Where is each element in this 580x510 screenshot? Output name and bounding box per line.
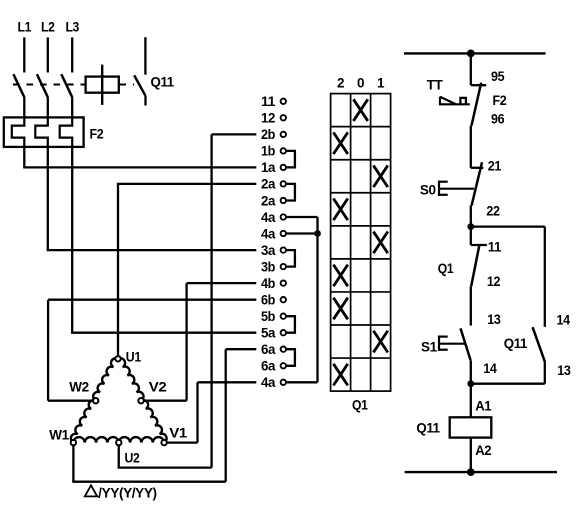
wire W2 to terminal 6b [48, 300, 256, 401]
wire junction to Q11 branch [471, 227, 545, 327]
link 6a-6a [287, 349, 295, 366]
svg-text:96: 96 [491, 111, 505, 126]
motor terminal W1 [71, 440, 76, 445]
label F2 [90, 127, 104, 142]
wire to F2 contact [470, 53, 472, 85]
label Q1 (cam switch) [352, 398, 368, 413]
X mark row 1 col 0 [353, 99, 367, 121]
S0 NC pushbutton contact (21-22) [471, 162, 484, 205]
label 13 (Q11 bottom) [557, 363, 571, 378]
svg-text:L2: L2 [41, 19, 55, 34]
junction at bottom supply [467, 468, 475, 476]
F2 thermal element 3 [60, 117, 72, 146]
label Q11 (aux contact) [504, 336, 528, 351]
X mark row 8 col 1 [373, 331, 387, 353]
Q11 NO aux contact (14-13) [471, 327, 545, 384]
svg-text:A1: A1 [475, 399, 492, 414]
label 14 (Q11 top) [557, 312, 571, 327]
label Q1 (control) [438, 261, 454, 276]
Q1 NO contact (11-12) [471, 227, 487, 326]
wire L3 to terminal 5a [71, 147, 256, 333]
svg-text:TT: TT [427, 77, 444, 92]
F2 NC contact (95-96) [471, 83, 486, 126]
wire V2 to terminal 4b [144, 283, 256, 401]
label 12 [487, 274, 500, 289]
svg-text:4a: 4a [261, 210, 276, 225]
label Q11 (coil) [416, 420, 440, 435]
cam switch terminal 4a (row 18) [261, 375, 286, 390]
svg-text:4a: 4a [261, 375, 276, 390]
svg-text:3a: 3a [261, 243, 276, 258]
label S1 [421, 340, 438, 355]
X mark row 2 col 2 [333, 132, 347, 154]
cam switch terminal 6a (row 16) [261, 342, 286, 357]
S1 NO pushbutton contact (13-14) [461, 328, 471, 383]
X mark row 3 col 1 [373, 165, 387, 187]
wire junction to coil [470, 384, 472, 418]
wire F2 to S0 [470, 126, 472, 168]
S0 pushbutton actuator [439, 181, 474, 196]
supply terminal L1 label [18, 19, 32, 34]
wire S0 to junction [470, 206, 472, 227]
label V2 [149, 380, 167, 395]
svg-text:L1: L1 [18, 19, 32, 34]
svg-text:S1: S1 [421, 340, 438, 355]
X mark row 5 col 1 [373, 232, 387, 254]
svg-text:Q11: Q11 [504, 336, 528, 351]
junction above coil [467, 380, 474, 387]
label winding configuration [85, 485, 157, 500]
F2 thermal element 1 [12, 117, 24, 146]
svg-text:11: 11 [261, 94, 276, 109]
junction 4a [314, 230, 321, 237]
switch pole 1 (L1) of main switch [13, 37, 24, 117]
label 96 [491, 111, 505, 126]
wire V1 to terminal 4a (bottom) [168, 382, 257, 442]
svg-text:11: 11 [488, 239, 502, 254]
label W2 [69, 380, 88, 395]
svg-text:2: 2 [337, 76, 344, 91]
supply terminal L2 label [41, 19, 55, 34]
thermal overload relay F2 box [4, 117, 84, 146]
label V1 [169, 425, 187, 440]
wire W1 to terminal 6a [72, 349, 256, 482]
link 5b-5a [287, 316, 295, 333]
svg-text:22: 22 [486, 203, 499, 218]
svg-text:Q1: Q1 [352, 398, 368, 413]
label 14 (S1 bottom) [483, 361, 497, 376]
svg-text:F2: F2 [493, 93, 507, 108]
cam switch terminal 4b (row 12) [261, 276, 286, 291]
cam switch terminal 4a (row 8) [261, 210, 286, 225]
motor terminal V1 [161, 440, 166, 445]
label 11 [488, 239, 502, 254]
svg-text:1a: 1a [261, 160, 276, 175]
label W1 [49, 427, 69, 442]
supply terminal L3 label [65, 19, 79, 34]
svg-text:14: 14 [557, 312, 571, 327]
label U2 [125, 450, 140, 465]
svg-text:1b: 1b [261, 144, 275, 159]
auxiliary contact Q11 (top) [134, 37, 145, 105]
svg-text:4a: 4a [261, 226, 276, 241]
motor terminal U1 [115, 356, 120, 361]
label Q11 (top contact) [151, 74, 175, 89]
svg-text:U1: U1 [126, 350, 142, 365]
X mark row 4 col 2 [333, 199, 347, 221]
S1 pushbutton actuator [439, 336, 465, 351]
motor terminal W2 [93, 398, 98, 403]
svg-text:21: 21 [488, 159, 502, 174]
svg-text:F2: F2 [90, 127, 104, 142]
cam switch terminal 5a (row 15) [261, 326, 286, 341]
label U1 [126, 350, 142, 365]
link 2a-2a [287, 184, 295, 201]
svg-text:12: 12 [487, 274, 500, 289]
F2 thermal element 2 [35, 117, 48, 146]
X mark row 9 col 2 [333, 364, 347, 386]
thermal trip symbol TT [440, 97, 470, 105]
svg-text:V2: V2 [149, 380, 167, 395]
motor winding U1-W2-W1 (left side coil) [71, 358, 118, 442]
svg-text:Q1: Q1 [438, 261, 454, 276]
switch mechanism box [86, 65, 119, 105]
link 1b-1a [287, 151, 295, 168]
X mark row 6 col 2 [333, 265, 347, 287]
svg-text:12: 12 [261, 111, 275, 126]
svg-text:95: 95 [491, 69, 505, 84]
svg-text:13: 13 [557, 363, 571, 378]
contactor coil Q11 (A1-A2) [450, 417, 492, 437]
cam switch terminal 6b (row 13) [261, 293, 286, 308]
cam switch terminal 3a (row 10) [261, 243, 286, 258]
cam switch terminal 1a (row 5) [261, 160, 286, 175]
wire U2 to terminal 2b [118, 134, 257, 467]
cam switch terminal 4a (row 9) [261, 226, 286, 241]
wire L1 to terminal 1a [23, 147, 256, 168]
wire U1 to terminal 2a [117, 184, 256, 356]
svg-text:0: 0 [357, 76, 364, 91]
label S0 [420, 183, 436, 198]
label TT [427, 77, 444, 92]
svg-text:6b: 6b [261, 293, 275, 308]
svg-text:2b: 2b [261, 127, 275, 142]
cam switch terminal 11 (row 1) [261, 94, 286, 109]
cam switch terminal 2b (row 3) [261, 127, 286, 142]
svg-text:5b: 5b [261, 309, 275, 324]
motor winding W1-U2-V1 (bottom coil) [73, 437, 164, 443]
motor winding U1-V2-V1 (right side coil) [118, 358, 167, 442]
svg-text:2a: 2a [261, 193, 276, 208]
cam switch terminal 2a (row 7) [261, 193, 286, 208]
cam switch position labels 2 0 1 [337, 76, 385, 91]
label 95 [491, 69, 505, 84]
svg-text:W1: W1 [49, 427, 69, 442]
svg-text:W2: W2 [69, 380, 88, 395]
svg-text:A2: A2 [475, 443, 491, 458]
svg-text:14: 14 [483, 361, 497, 376]
link 3a-3b [287, 250, 295, 267]
svg-text:5a: 5a [261, 326, 276, 341]
svg-text:V1: V1 [169, 425, 187, 440]
cam switch terminal 12 (row 2) [261, 111, 286, 126]
cam switch terminal 3b (row 11) [261, 259, 286, 274]
label A1 [475, 399, 492, 414]
junction at top supply [467, 50, 475, 58]
cam switch terminal 5b (row 14) [261, 309, 286, 324]
svg-text:/YY(Y/YY): /YY(Y/YY) [98, 485, 157, 500]
svg-text:6a: 6a [261, 342, 276, 357]
cam switch terminal 1b (row 4) [261, 144, 286, 159]
control circuit bottom supply wire [405, 471, 557, 473]
label 13 (S1 top) [487, 312, 501, 327]
svg-text:13: 13 [487, 312, 501, 327]
cam switch terminal 2a (row 6) [261, 177, 286, 192]
cam switch contact table grid [331, 94, 391, 392]
junction below S0 [467, 223, 474, 230]
svg-text:2a: 2a [261, 177, 276, 192]
svg-text:1: 1 [377, 76, 385, 91]
label 22 [486, 203, 499, 218]
motor terminal U2 [116, 440, 121, 445]
wire L2 to terminal 3a [47, 147, 257, 250]
svg-text:L3: L3 [65, 19, 79, 34]
motor terminal V2 [138, 398, 143, 403]
svg-text:3b: 3b [261, 259, 275, 274]
switch pole 3 (L3) of main switch [61, 37, 72, 117]
svg-text:Q11: Q11 [151, 74, 175, 89]
wire 4a-4a-4a common link [287, 217, 318, 382]
label F2 (control) [493, 93, 507, 108]
linkage dashed line [13, 84, 134, 86]
X mark row 7 col 2 [333, 298, 347, 320]
svg-text:U2: U2 [125, 450, 140, 465]
svg-text:S0: S0 [420, 183, 436, 198]
wire coil to bottom supply [470, 438, 472, 473]
cam switch terminal 6a (row 17) [261, 359, 286, 374]
switch pole 2 (L2) of main switch [37, 37, 48, 117]
label 21 [488, 159, 502, 174]
label A2 [475, 443, 491, 458]
svg-text:Q11: Q11 [416, 420, 440, 435]
control circuit top supply wire [404, 52, 546, 54]
svg-text:6a: 6a [261, 359, 276, 374]
svg-text:4b: 4b [261, 276, 275, 291]
